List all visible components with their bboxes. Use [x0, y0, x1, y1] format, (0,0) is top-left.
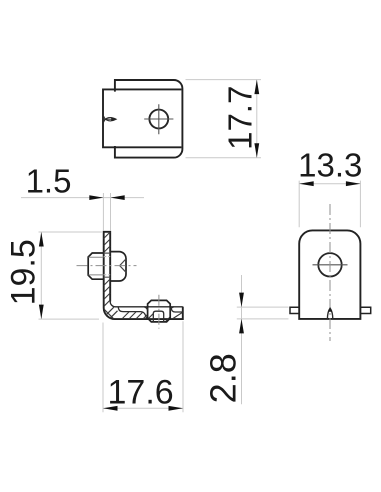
2.8 extension lines: [237, 307, 289, 319]
19.5 arrow bottom: [39, 305, 44, 320]
svg-text:19.5: 19.5: [5, 239, 43, 305]
facet dashed lines across strip: [104, 257, 111, 275]
1.5 arrow left: [89, 195, 103, 200]
horizontal centerline through bumps: [77, 265, 137, 267]
17.6 arrow right: [169, 406, 184, 411]
nut facet lines: [89, 257, 104, 275]
side view tab step line right segment: [171, 307, 183, 312]
top view hole crosshair: [144, 104, 173, 134]
13.3 dimension line: [299, 183, 360, 185]
17.7 arrow top: [254, 80, 259, 95]
19.5 dimension line: [40, 232, 42, 319]
19.5 arrow top: [39, 232, 44, 247]
svg-text:17.7: 17.7: [222, 86, 259, 150]
svg-text:13.3: 13.3: [298, 146, 362, 183]
leg bump neck fillets: [144, 307, 174, 311]
2.8 arrow bottom: [239, 319, 244, 334]
leg bump vertical centerline: [158, 295, 160, 329]
bump side bands hatching: [149, 314, 171, 322]
1.5 extension lines: [103, 193, 110, 231]
strip hatching lower section: [104, 279, 111, 306]
2.8 arrow top: [239, 293, 244, 308]
front view body outline: [299, 230, 360, 319]
top view hole circle: [149, 110, 168, 129]
top view lance mark: [104, 116, 117, 122]
nut edges crossing strip: [104, 253, 111, 277]
13.3 extension lines: [299, 181, 360, 228]
side view tab step line left segment: [118, 307, 146, 318]
leg bump inner slot: [153, 311, 163, 322]
top view folded flap outline: [115, 80, 183, 158]
side view leg top edge: [110, 302, 183, 307]
leg hatching: [122, 312, 147, 319]
svg-text:17.6: 17.6: [108, 373, 174, 411]
side view part outline: [104, 232, 183, 319]
19.5 extension lines: [39, 232, 102, 319]
svg-text:1.5: 1.5: [26, 163, 72, 200]
dome cone mark: [120, 259, 126, 272]
17.7 dimension line: [256, 80, 258, 158]
side view leg bump outline: [148, 300, 171, 322]
17.7 extension lines: [186, 80, 262, 158]
front view right tab: [360, 307, 370, 313]
side view clinch nut (left bump): [88, 253, 104, 279]
strip hatching upper section: [104, 232, 111, 253]
13.3 arrow right: [346, 181, 361, 186]
svg-text:2.8: 2.8: [202, 353, 243, 403]
13.3 arrow left: [299, 181, 314, 186]
bend hatching: [104, 307, 117, 318]
17.6 dimension line: [103, 407, 183, 409]
2.8 dimension line: [241, 275, 243, 404]
front view vertical centerline: [329, 204, 331, 341]
front view lance flame mark: [327, 308, 332, 319]
1.5 dimension line: [21, 197, 144, 199]
front view hole circle: [318, 253, 341, 276]
1.5 arrow right: [111, 195, 125, 200]
17.7 arrow bottom: [254, 143, 259, 158]
17.6 extension lines: [103, 321, 183, 412]
side view leg end hatch line: [173, 313, 183, 319]
front view left tab: [290, 307, 299, 313]
side view dome rivet (right bump): [110, 252, 126, 281]
top view main body outline: [103, 89, 181, 147]
17.6 arrow left: [103, 406, 118, 411]
front view hole crosshair horizontal: [313, 264, 348, 266]
